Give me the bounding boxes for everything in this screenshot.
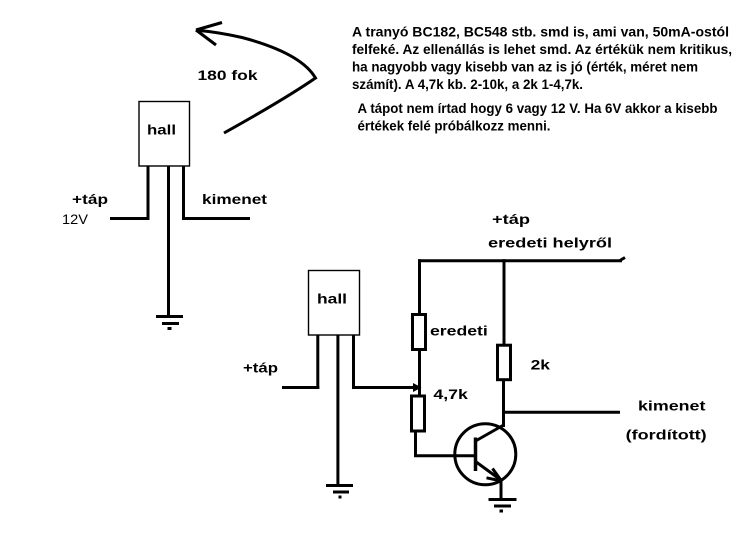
svg-text:(fordított): (fordított)	[626, 427, 707, 443]
svg-text:hall: hall	[147, 122, 176, 138]
ground (emitter)	[489, 500, 517, 512]
ground (circuit 2)	[326, 486, 353, 498]
transistor Q1 emitter stroke	[476, 462, 502, 481]
svg-text:értékek felé próbálkozz menni.: értékek felé próbálkozz menni.	[358, 118, 551, 133]
wire rail to R1 top	[418, 259, 421, 314]
wire U1 pin1 (+táp leg)	[147, 166, 150, 220]
svg-text:számít). A 4,7k kb. 2-10k, a: számít). A 4,7k kb. 2-10k, a 2k 1-4,7k.	[352, 77, 583, 92]
wire U1 pin3 (kimenet leg)	[182, 166, 185, 220]
resistor R2 (4,7k)	[412, 396, 425, 431]
transistor Q1 (circle)	[455, 424, 516, 485]
svg-text:4,7k: 4,7k	[433, 386, 468, 402]
svg-text:A tranyó BC182, BC548 stb. smd: A tranyó BC182, BC548 stb. smd is, ami v…	[352, 25, 729, 40]
svg-text:kimenet: kimenet	[638, 398, 706, 414]
svg-text:ha nagyobb vagy kisebb van az: ha nagyobb vagy kisebb van az is jó (ért…	[352, 59, 698, 74]
svg-text:eredeti helyről: eredeti helyről	[488, 234, 612, 250]
wire kimenet (fordított)	[504, 411, 621, 414]
wire U1 pin2 (ground leg)	[167, 166, 170, 317]
svg-text:hall: hall	[317, 291, 347, 307]
rotation arrow (180 fok)	[196, 23, 316, 134]
transistor Q1 collector stroke	[476, 425, 505, 442]
wire R3 bottom to collector	[502, 380, 505, 427]
wire emitter to ground	[500, 480, 503, 499]
svg-text:kimenet: kimenet	[202, 191, 267, 207]
note paragraph 2	[358, 101, 718, 133]
wire kimenet (circuit 1)	[182, 217, 250, 220]
wire U2 output to node A (with arrowhead)	[352, 386, 415, 389]
node A arrowhead	[413, 383, 422, 392]
hall sensor U1 (box)	[139, 102, 190, 167]
resistor R1 (eredeti)	[413, 315, 426, 350]
svg-text:12V: 12V	[62, 211, 89, 227]
note paragraph 1	[352, 25, 732, 92]
wire R1 bottom to R2 top (node A)	[418, 351, 421, 395]
svg-text:A tápot nem írtad hogy 6 vagy: A tápot nem írtad hogy 6 vagy 12 V. Ha 6…	[358, 101, 718, 116]
wire U2 pin1 (+táp leg)	[316, 335, 319, 389]
ground (circuit 1)	[156, 317, 183, 329]
svg-text:felfeké. Az ellenállás is lehe: felfeké. Az ellenállás is lehet smd. Az …	[352, 42, 732, 57]
wire U2 pin3 (output leg)	[352, 335, 355, 389]
wire +táp feed (circuit 2)	[282, 386, 319, 389]
wire +táp feed (12V)	[110, 217, 150, 220]
wire rail to R3 top	[503, 259, 506, 345]
wire R2 bottom to base	[414, 431, 476, 457]
svg-text:eredeti: eredeti	[430, 322, 488, 338]
hall sensor U2 (box)	[309, 271, 360, 336]
resistor R3 (2k)	[498, 345, 511, 380]
transistor Q1 base bar	[474, 438, 478, 472]
svg-text:2k: 2k	[531, 356, 551, 372]
wire +táp rail (eredeti helyről)	[418, 258, 625, 262]
wire U2 pin2 (ground leg)	[336, 335, 339, 486]
svg-text:+táp: +táp	[72, 191, 108, 207]
transistor Q1 emitter arrowhead	[487, 469, 502, 482]
svg-text:180 fok: 180 fok	[198, 67, 258, 83]
svg-text:+táp: +táp	[243, 360, 278, 376]
svg-text:+táp: +táp	[492, 211, 530, 227]
